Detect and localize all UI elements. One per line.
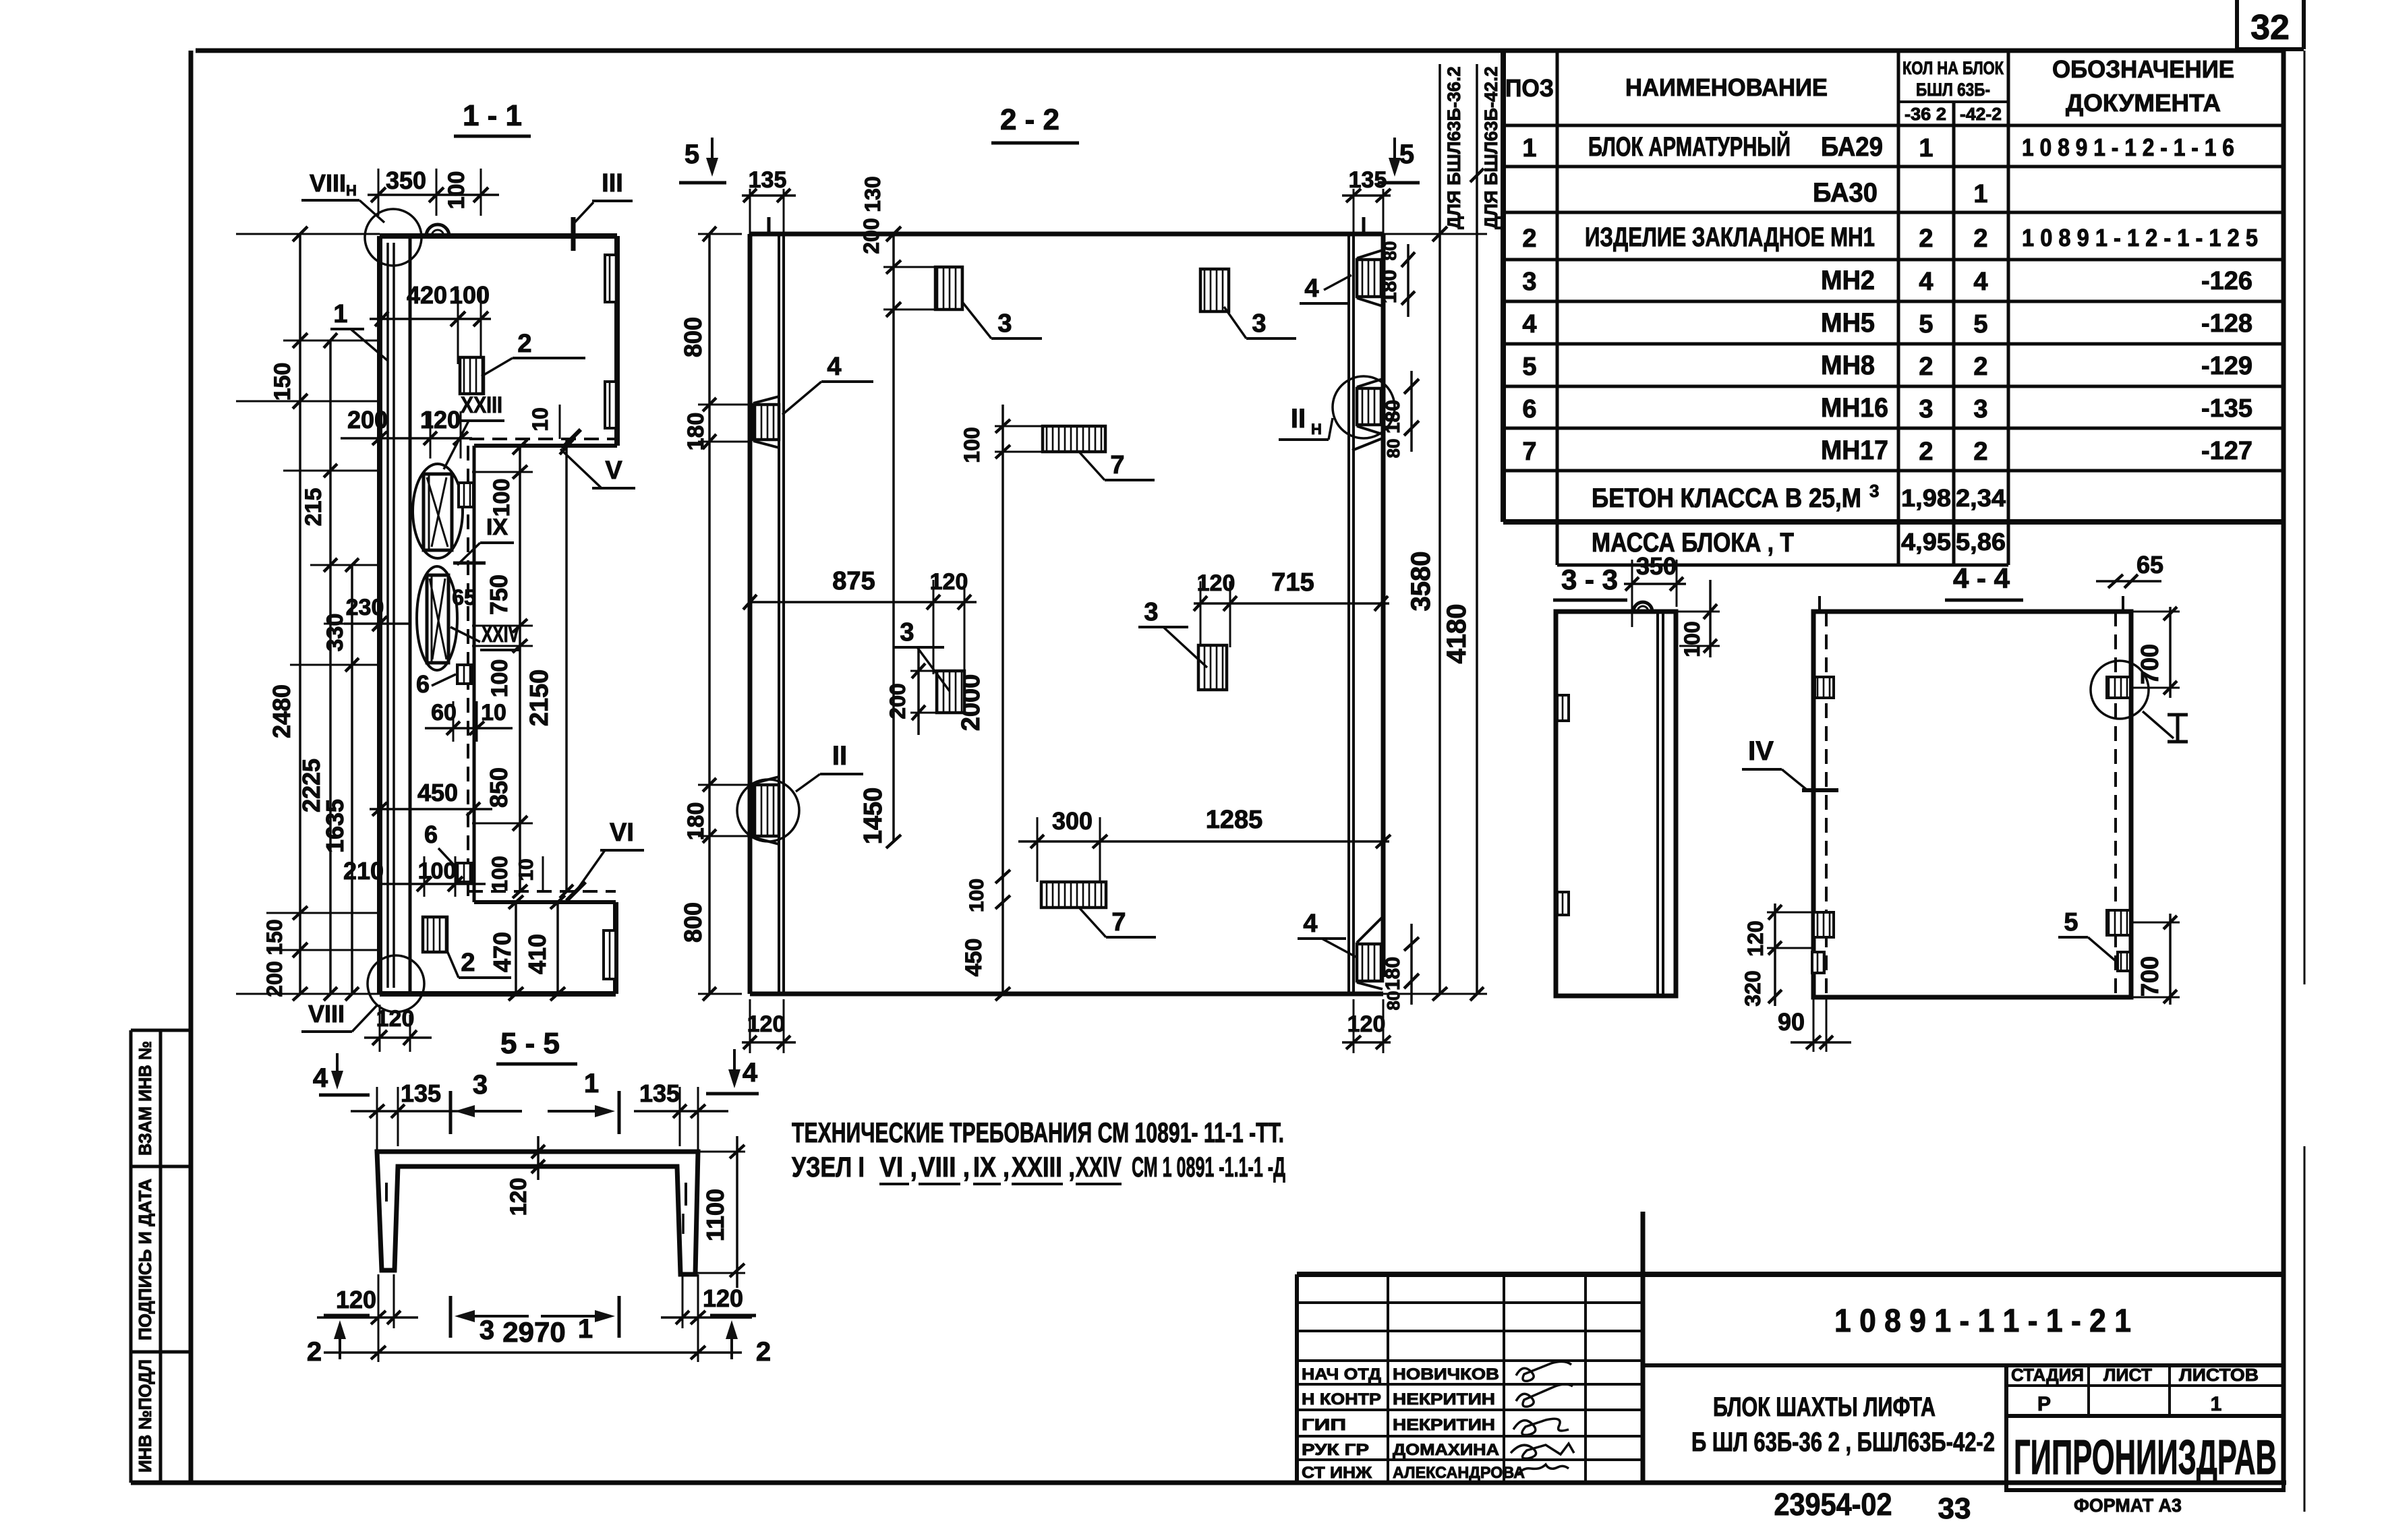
2-2 plate 7 lower [1041, 882, 1106, 908]
svg-text:V: V [605, 456, 622, 485]
svg-text:ЛИСТ: ЛИСТ [2103, 1365, 2152, 1385]
svg-text:5: 5 [2064, 908, 2078, 937]
svg-text:XXIII: XXIII [461, 392, 502, 418]
svg-text:450: 450 [417, 779, 458, 806]
4-4 dim 65 [2096, 580, 2161, 583]
svg-text:150: 150 [270, 363, 295, 401]
5-5 channel outline [377, 1152, 698, 1274]
svg-text:120: 120 [747, 1011, 786, 1037]
svg-text:350: 350 [1636, 552, 1677, 580]
svg-text:АЛЕКСАНДРОВА: АЛЕКСАНДРОВА [1393, 1464, 1525, 1482]
svg-text:ГИПРОНИИЗДРАВ: ГИПРОНИИЗДРАВ [2014, 1431, 2277, 1485]
svg-text:90: 90 [1778, 1008, 1805, 1036]
svg-text:МАССА БЛОКА , Т: МАССА БЛОКА , Т [1592, 528, 1794, 558]
svg-text:300: 300 [1052, 807, 1093, 835]
svg-text:120: 120 [336, 1286, 376, 1313]
svg-text:800: 800 [679, 317, 707, 357]
2-2 dim 135 top right [1342, 194, 1391, 197]
svg-text:ФОРМАТ А3: ФОРМАТ А3 [2074, 1495, 2182, 1516]
svg-text:РУК ГР: РУК ГР [1302, 1441, 1369, 1459]
2-2 panel outline [748, 234, 753, 994]
svg-text:4180: 4180 [1442, 604, 1472, 664]
1-1 small plate near IX [459, 483, 473, 507]
svg-text:МН16: МН16 [1821, 393, 1888, 423]
svg-text:2970: 2970 [502, 1316, 565, 1348]
3-3 dim 100 [1709, 580, 1712, 657]
svg-text:100: 100 [487, 659, 513, 698]
svg-text:230: 230 [346, 595, 384, 620]
svg-text:1: 1 [1522, 134, 1536, 162]
svg-text:IX ,: IX , [973, 1151, 1010, 1183]
svg-text:СМ 1 0891 -1.1-1 -Д: СМ 1 0891 -1.1-1 -Д [1132, 1151, 1285, 1183]
svg-text:1635: 1635 [321, 799, 349, 853]
1-1 embed plate 2 lower [423, 917, 447, 952]
svg-text:750: 750 [485, 574, 513, 615]
svg-text:120: 120 [376, 1006, 415, 1032]
svg-text:100: 100 [444, 171, 469, 210]
svg-text:НЕКРИТИН: НЕКРИТИН [1393, 1416, 1495, 1434]
1-1 left dimension chains [236, 233, 380, 235]
3-3 left edge plates [1557, 695, 1569, 721]
4-4 outline [1813, 612, 2131, 997]
1-1 dims 470 410 rotated [515, 902, 517, 994]
svg-text:3: 3 [997, 309, 1012, 338]
svg-text:5 - 5: 5 - 5 [500, 1027, 560, 1060]
svg-text:33: 33 [1938, 1492, 1971, 1525]
svg-text:80: 80 [1383, 439, 1403, 458]
title block name cell [2004, 1365, 2008, 1483]
svg-text:-129: -129 [2201, 352, 2252, 380]
2-2 node circle II_n right [1333, 376, 1395, 438]
svg-text:2: 2 [1919, 225, 1933, 253]
svg-text:150: 150 [262, 919, 287, 955]
svg-text:УЗЕЛ I: УЗЕЛ I [792, 1151, 865, 1183]
svg-text:5: 5 [685, 140, 699, 169]
svg-text:3: 3 [479, 1315, 494, 1345]
1-1 dim 100 lower [378, 883, 486, 885]
2-2 embed plate 3 top-right [1200, 269, 1229, 312]
svg-text:715: 715 [1271, 568, 1314, 597]
svg-text:БЕТОН КЛАССА В 25,М: БЕТОН КЛАССА В 25,М [1592, 483, 1861, 513]
svg-text:IV: IV [1748, 736, 1774, 766]
3-3 outline [1556, 612, 1676, 996]
svg-text:100: 100 [966, 879, 988, 912]
svg-text:6: 6 [424, 821, 438, 848]
1-1 wall panel outline [377, 236, 382, 994]
svg-text:НОВИЧКОВ: НОВИЧКОВ [1393, 1365, 1499, 1384]
1-1 node circle VIII bottom [368, 955, 424, 1012]
svg-text:ИНВ №ПОДЛ: ИНВ №ПОДЛ [135, 1359, 155, 1473]
svg-text:130: 130 [861, 176, 885, 212]
svg-text:4: 4 [1522, 310, 1536, 338]
svg-text:МН2: МН2 [1821, 266, 1875, 295]
svg-text:10: 10 [515, 858, 537, 881]
svg-text:ПОЗ: ПОЗ [1505, 74, 1554, 102]
svg-text:Н: Н [1311, 421, 1322, 438]
1-1 chain extension lines [472, 471, 533, 473]
svg-text:135: 135 [639, 1079, 680, 1107]
svg-text:4: 4 [827, 353, 841, 381]
svg-text:1: 1 [2211, 1393, 2222, 1415]
svg-text:1: 1 [584, 1069, 599, 1098]
svg-text:5: 5 [1399, 140, 1414, 169]
svg-text:ЛИСТОВ: ЛИСТОВ [2179, 1365, 2259, 1385]
1-1 plate 6 upper [457, 665, 472, 684]
svg-text:215: 215 [301, 488, 326, 527]
svg-text:2: 2 [1919, 353, 1933, 381]
svg-text:7: 7 [1110, 451, 1124, 479]
svg-text:1: 1 [1919, 134, 1933, 162]
svg-text:2: 2 [307, 1337, 322, 1367]
svg-text:Р: Р [2037, 1393, 2051, 1415]
svg-text:-126: -126 [2201, 267, 2252, 295]
2-2 right overall dims 3580 4180 [1438, 64, 1441, 994]
1-1 dim 420 100 [370, 318, 491, 320]
svg-text:-127: -127 [2201, 437, 2252, 465]
svg-text:II: II [1291, 404, 1306, 434]
svg-text:10: 10 [528, 407, 552, 432]
5-5 section marker 2 up left [324, 1314, 370, 1317]
svg-text:470: 470 [488, 932, 516, 972]
4-4 dim 90 bottom [1813, 997, 1815, 1052]
svg-text:4: 4 [1919, 268, 1933, 296]
4-4 dim 700 bottom [2169, 914, 2172, 1005]
2-2 plate 7 upper + dim 100 [1043, 426, 1105, 452]
svg-text:850: 850 [485, 767, 513, 808]
svg-text:80: 80 [1380, 241, 1400, 261]
svg-text:БА29: БА29 [1821, 132, 1883, 162]
svg-text:XXIV: XXIV [1076, 1151, 1122, 1183]
1-1 dim 2150 [565, 439, 568, 891]
org name ГИПРОНИИЗДРАВ [2006, 1416, 2284, 1490]
svg-text:4: 4 [743, 1058, 758, 1088]
2-2 top rebar ticks [767, 217, 771, 234]
svg-text:100: 100 [489, 479, 515, 517]
1-1 embed plate 2 upper (МН1) [460, 357, 484, 394]
svg-text:2: 2 [1973, 353, 1987, 381]
svg-text:-128: -128 [2201, 309, 2252, 338]
svg-text:СТАДИЯ: СТАДИЯ [2011, 1365, 2084, 1385]
2-2 node circle II left [737, 779, 799, 841]
svg-text:VIII ,: VIII , [919, 1151, 970, 1183]
5-5 dim 120 slab [537, 1136, 540, 1180]
2-2 dim 2000 vertical [1001, 472, 1004, 994]
stadia list cells [2006, 1384, 2284, 1387]
5-5 dim 120 bottom right [661, 1316, 752, 1319]
svg-text:XXIII ,: XXIII , [1012, 1151, 1075, 1183]
svg-text:ДЛЯ БШЛ63Б-36.2: ДЛЯ БШЛ63Б-36.2 [1444, 66, 1464, 229]
5-5 section marker 2 up right [710, 1314, 756, 1317]
2-2 dim 200 mid [917, 647, 920, 735]
svg-text:32: 32 [2250, 8, 2290, 47]
svg-text:2: 2 [461, 949, 475, 977]
svg-text:-42-2: -42-2 [1960, 104, 2002, 124]
svg-text:135: 135 [401, 1079, 441, 1107]
svg-text:120: 120 [506, 1178, 531, 1216]
svg-text:МН5: МН5 [1821, 308, 1875, 338]
1-1 node circle VIII_n top [365, 209, 421, 266]
1-1 bottom block edge plate [604, 930, 616, 979]
svg-text:350: 350 [386, 167, 426, 194]
5-5 dim 120 bottom left [317, 1316, 418, 1319]
svg-text:420: 420 [407, 281, 447, 309]
svg-text:2: 2 [756, 1337, 771, 1367]
2-2 dim 120 715 middle right [1194, 602, 1389, 605]
svg-text:4: 4 [1304, 274, 1318, 303]
2-2 right wall dims 180 80 pairs [1407, 244, 1409, 317]
svg-text:450: 450 [961, 939, 987, 977]
svg-text:100: 100 [1680, 621, 1704, 657]
svg-text:МН17: МН17 [1821, 436, 1888, 465]
svg-text:ДОМАХИНА: ДОМАХИНА [1393, 1441, 1499, 1459]
svg-text:ТЕХНИЧЕСКИЕ ТРЕБОВАНИЯ СМ: ТЕХНИЧЕСКИЕ ТРЕБОВАНИЯ СМ 10891- 11-1 -Т… [792, 1117, 1284, 1148]
svg-text:1 0 8 9 1 - 1 2 - 1 - 1 2 5: 1 0 8 9 1 - 1 2 - 1 - 1 2 5 [2022, 224, 2258, 251]
2-2 embed plate 3 mid-right [1198, 645, 1227, 690]
svg-text:100: 100 [449, 281, 490, 309]
svg-text:НАЧ ОТД: НАЧ ОТД [1302, 1365, 1381, 1384]
svg-text:КОЛ НА БЛОК: КОЛ НА БЛОК [1902, 58, 2004, 78]
svg-text:10: 10 [481, 700, 506, 725]
svg-text:1100: 1100 [701, 1189, 729, 1241]
svg-text:200: 200 [885, 683, 910, 719]
4-4 right plates [2107, 677, 2130, 698]
2-2 left chain 800 180 180 800 [708, 234, 711, 994]
svg-text:210: 210 [343, 857, 384, 885]
svg-text:180: 180 [683, 802, 709, 841]
title block [1297, 1272, 2284, 1277]
svg-text:ДЛЯ БШЛ63Б-42.2: ДЛЯ БШЛ63Б-42.2 [1481, 66, 1501, 229]
parts specification table [1501, 51, 1506, 522]
svg-text:60: 60 [431, 700, 457, 725]
2-2 dim 130 200 top [892, 234, 895, 841]
svg-text:120: 120 [1743, 920, 1768, 956]
svg-text:3580: 3580 [1406, 552, 1436, 612]
svg-text:1: 1 [1973, 180, 1987, 208]
5-5 dim 135 top right [634, 1110, 728, 1113]
svg-text:3: 3 [1144, 598, 1158, 626]
5-5 leg inner marks [385, 1183, 388, 1202]
svg-text:5,86: 5,86 [1956, 528, 2006, 556]
svg-text:1285: 1285 [1206, 806, 1263, 834]
1-1 dim 350 / 100 top [368, 194, 499, 196]
svg-text:3: 3 [1252, 309, 1266, 338]
1-1 dim 60 10 [425, 727, 513, 730]
svg-text:СТ ИНЖ: СТ ИНЖ [1302, 1464, 1372, 1482]
svg-text:2: 2 [1973, 225, 1987, 253]
svg-text:6: 6 [1522, 395, 1536, 423]
4-4 label I [2143, 711, 2174, 738]
2-2 dim 875 120 middle [750, 601, 977, 603]
5-5 section marker 4 top right [733, 1049, 736, 1084]
svg-text:VI ,: VI , [879, 1151, 917, 1183]
svg-text:3: 3 [900, 618, 914, 647]
4-4 dim 700 top [2169, 607, 2172, 698]
svg-text:Н: Н [346, 182, 357, 199]
svg-text:180: 180 [683, 413, 709, 451]
svg-text:2: 2 [1973, 438, 1987, 466]
1-1 reinforcement block pos1 lines [386, 243, 389, 988]
2-2 dim 135 top left [742, 194, 796, 197]
svg-text:120: 120 [420, 406, 461, 434]
right page edge line [2304, 51, 2306, 984]
svg-text:VI: VI [610, 819, 634, 847]
svg-text:330: 330 [322, 614, 348, 652]
2-2 left wall plate 4 upper with wedges [753, 405, 779, 440]
svg-text:IX: IX [486, 514, 508, 540]
1-1 lifting hook [426, 225, 449, 236]
svg-text:135: 135 [749, 167, 787, 193]
svg-text:800: 800 [679, 902, 707, 943]
svg-text:5: 5 [1973, 310, 1987, 338]
svg-text:БЛОК АРМАТУРНЫЙ: БЛОК АРМАТУРНЫЙ [1588, 131, 1791, 162]
svg-text:4,95: 4,95 [1901, 528, 1951, 556]
drawing frame border [189, 51, 194, 1483]
4-4 node circle I [2091, 661, 2149, 719]
title block doc number cell [1643, 1363, 2284, 1367]
svg-text:2 - 2: 2 - 2 [1000, 103, 1059, 136]
4-4 dims 120 320 left [1774, 904, 1776, 1006]
2-2 dim 120 bottom left [742, 1041, 796, 1044]
signatures squiggles [1516, 1361, 1571, 1381]
svg-text:200: 200 [262, 961, 287, 997]
5-5 dim 135 top left [351, 1110, 472, 1113]
2-2 dim 300 1285 bottom [1018, 840, 1389, 843]
svg-text:3: 3 [1522, 268, 1536, 296]
svg-text:65: 65 [2136, 551, 2163, 579]
svg-text:5: 5 [1522, 353, 1536, 381]
2-2 dim 120 bottom right [1342, 1041, 1391, 1044]
svg-text:-36 2: -36 2 [1905, 104, 1946, 124]
svg-text:1,98: 1,98 [1901, 484, 1951, 512]
svg-text:100: 100 [960, 427, 984, 463]
svg-text:ДОКУМЕНТА: ДОКУМЕНТА [2066, 89, 2221, 117]
svg-text:НЕКРИТИН: НЕКРИТИН [1393, 1390, 1495, 1409]
2-2 right wall plate 4 top with wedges [1357, 260, 1383, 297]
svg-text:2480: 2480 [268, 684, 295, 738]
5-5 dim 1100 right [736, 1136, 738, 1288]
2-2 section marker 5 down right [1393, 138, 1396, 173]
svg-text:1 0 8 9 1 - 1 2 - 1 - 1 6: 1 0 8 9 1 - 1 2 - 1 - 1 6 [2022, 134, 2234, 161]
svg-text:4: 4 [1973, 268, 1987, 296]
2-2 embed plate 3 mid-left [937, 671, 964, 713]
svg-text:200: 200 [859, 218, 883, 254]
svg-text:БЛОК ШАХТЫ ЛИФТА: БЛОК ШАХТЫ ЛИФТА [1713, 1392, 1936, 1422]
2-2 embed plate 3 top-left [935, 267, 962, 309]
svg-text:2: 2 [1522, 225, 1536, 253]
4-4 left plates [1815, 677, 1834, 698]
svg-text:2: 2 [517, 330, 531, 358]
svg-text:4: 4 [313, 1063, 328, 1093]
svg-text:ПОДПИСЬ И ДАТА: ПОДПИСЬ И ДАТА [135, 1179, 155, 1340]
svg-text:ГИП: ГИП [1302, 1416, 1346, 1434]
svg-text:135: 135 [1349, 167, 1387, 193]
svg-text:2150: 2150 [525, 670, 554, 727]
svg-text:НАИМЕНОВАНИЕ: НАИМЕНОВАНИЕ [1625, 73, 1828, 101]
1-1 vertical chain 100 750 100 850 [519, 447, 521, 891]
svg-text:ВЗАМ ИНВ №: ВЗАМ ИНВ № [135, 1041, 155, 1156]
left sidebar stamp column [129, 1030, 133, 1483]
svg-text:875: 875 [832, 567, 875, 595]
svg-text:4 - 4: 4 - 4 [1953, 562, 2010, 594]
svg-text:1 - 1: 1 - 1 [463, 99, 522, 132]
svg-text:23954-02: 23954-02 [1774, 1487, 1892, 1522]
svg-text:2: 2 [1919, 438, 1933, 466]
svg-text:180: 180 [1378, 270, 1401, 303]
svg-text:200: 200 [347, 406, 388, 434]
1-1 dim 120 bottom [364, 1036, 432, 1039]
svg-text:3: 3 [473, 1070, 488, 1100]
1-1 node ellipse XXIV with rail embed [417, 566, 457, 670]
svg-text:Б ШЛ 63Б-36 2 , БШЛ63Б-42-2: Б ШЛ 63Б-36 2 , БШЛ63Б-42-2 [1691, 1427, 1995, 1457]
svg-text:1450: 1450 [859, 788, 888, 845]
1-1 plate 6 lower + label [457, 863, 472, 882]
svg-text:4: 4 [1303, 910, 1317, 938]
svg-text:3: 3 [1869, 481, 1879, 501]
1-1 node ellipse XXIII with rail embed [413, 464, 463, 558]
svg-text:100: 100 [488, 856, 512, 891]
3-3 lifting hook [1633, 602, 1652, 612]
svg-text:3: 3 [1919, 395, 1933, 423]
svg-text:410: 410 [523, 934, 551, 974]
3-3 dim 350 [1624, 583, 1686, 585]
svg-text:1: 1 [578, 1314, 593, 1344]
svg-text:320: 320 [1741, 970, 1765, 1006]
svg-text:2,34: 2,34 [1956, 484, 2006, 512]
1-1 dim 200 120 [341, 437, 472, 440]
svg-text:ОБОЗНАЧЕНИЕ: ОБОЗНАЧЕНИЕ [2052, 55, 2234, 83]
1-1 upper block edge plates [605, 255, 617, 302]
page number box 32 [2235, 0, 2239, 49]
svg-text:3: 3 [1973, 395, 1987, 423]
svg-text:700: 700 [2136, 956, 2163, 997]
svg-text:6: 6 [416, 670, 430, 698]
svg-text:65: 65 [452, 585, 476, 610]
svg-text:МН8: МН8 [1821, 351, 1875, 380]
svg-text:7: 7 [1111, 908, 1126, 937]
svg-text:3 - 3: 3 - 3 [1561, 564, 1618, 595]
svg-text:120: 120 [703, 1284, 743, 1312]
svg-text:5: 5 [1919, 310, 1933, 338]
1-1 dim 450 [370, 808, 492, 810]
svg-text:II: II [832, 741, 847, 771]
svg-text:VIII: VIII [308, 1000, 345, 1028]
svg-text:180: 180 [1382, 957, 1404, 990]
svg-text:-135: -135 [2201, 394, 2252, 423]
svg-text:III: III [602, 169, 623, 198]
svg-text:БШЛ 63Б-: БШЛ 63Б- [1916, 80, 1990, 100]
svg-text:120: 120 [930, 569, 968, 595]
svg-text:VIII: VIII [310, 169, 346, 197]
svg-text:7: 7 [1522, 438, 1536, 466]
svg-text:ИЗДЕЛИЕ ЗАКЛАДНОЕ МН1: ИЗДЕЛИЕ ЗАКЛАДНОЕ МН1 [1585, 223, 1875, 252]
svg-text:Н КОНТР: Н КОНТР [1302, 1390, 1381, 1409]
2-2 right wall plate 4 bottom with wedges [1357, 944, 1383, 981]
svg-text:1 0 8 9 1 - 1 1 - 1 - 2 1: 1 0 8 9 1 - 1 1 - 1 - 2 1 [1834, 1303, 2131, 1339]
svg-text:180: 180 [1382, 400, 1404, 434]
svg-text:700: 700 [2136, 644, 2163, 684]
svg-text:БА30: БА30 [1813, 178, 1878, 208]
svg-text:1: 1 [333, 300, 347, 328]
